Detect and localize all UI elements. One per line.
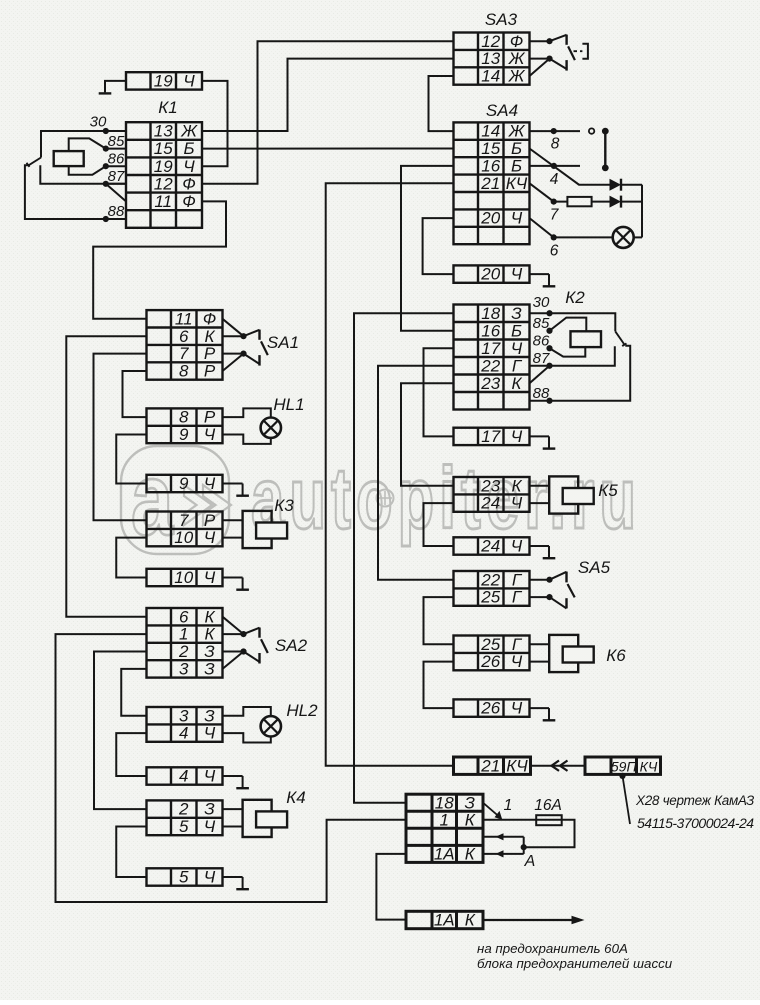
relay K2 junction dots — [546, 310, 552, 404]
switch SA4 fixed contact ring — [589, 128, 594, 133]
svg-text:14: 14 — [481, 67, 500, 86]
svg-text:15: 15 — [481, 139, 500, 158]
svg-text:SA1: SA1 — [267, 333, 299, 352]
relay K2 pin 30 wire and blade — [530, 313, 616, 331]
svg-text:20: 20 — [480, 265, 500, 284]
svg-text:11: 11 — [154, 192, 172, 211]
ground 26Ч — [543, 708, 556, 720]
ground 10Ч — [236, 578, 249, 590]
connector block K1 — [126, 122, 202, 228]
watermark chevron arrows — [184, 485, 212, 525]
svg-text:85: 85 — [108, 133, 125, 150]
svg-text:8: 8 — [179, 362, 189, 381]
connector block HL2 — [147, 706, 223, 742]
svg-text:25: 25 — [480, 635, 500, 654]
svg-text:16: 16 — [481, 321, 500, 340]
svg-text:Ч: Ч — [204, 568, 216, 587]
relay coil K4 — [243, 800, 288, 837]
wire 26Ч to ground — [530, 707, 550, 709]
svg-text:Ж: Ж — [508, 49, 526, 68]
svg-text:К6: К6 — [606, 646, 626, 665]
relay K1 junction dots — [103, 128, 109, 222]
wire 6К SA1 to SA2 — [66, 336, 146, 617]
wire 22Г K2 to SA5 — [378, 366, 454, 580]
svg-text:24: 24 — [480, 494, 500, 513]
wire 18З K2 to fuse panel — [354, 313, 454, 802]
svg-text:17: 17 — [481, 339, 500, 358]
svg-text:87: 87 — [533, 350, 550, 367]
svg-text:5: 5 — [179, 817, 189, 836]
svg-text:К: К — [204, 327, 215, 346]
wire 20Ч to ground — [530, 273, 550, 275]
svg-text:Ч: Ч — [204, 868, 216, 887]
relay K2 pin 88 bus — [530, 346, 631, 401]
svg-text:6: 6 — [179, 327, 189, 346]
svg-text:Х28 чертеж КамАЗ: Х28 чертеж КамАЗ — [635, 793, 755, 808]
svg-text:Р: Р — [204, 362, 216, 381]
connector block K5 — [454, 476, 530, 512]
svg-text:21: 21 — [480, 174, 500, 193]
svg-text:Ч: Ч — [511, 427, 523, 446]
wire K6 26Ч to connector — [424, 662, 454, 709]
relay coil K6 — [549, 635, 594, 672]
detachable contact arrows — [552, 761, 560, 771]
svg-text:SA3: SA3 — [485, 10, 518, 29]
wire SA4 right bus — [641, 185, 643, 238]
ground 24Ч — [543, 546, 556, 558]
svg-text:1: 1 — [440, 810, 449, 829]
svg-text:Б: Б — [183, 139, 194, 158]
svg-text:Ч: Ч — [511, 652, 523, 671]
svg-text:22: 22 — [480, 570, 500, 589]
svg-text:КЧ: КЧ — [506, 174, 528, 193]
svg-text:16А: 16А — [534, 797, 562, 814]
svg-text:6: 6 — [550, 243, 559, 260]
wire 1АК fuse panel to bottom connector — [376, 854, 406, 920]
connector block 17Ч — [454, 427, 530, 446]
wire 15Б K1 to SA4 — [202, 148, 454, 150]
svg-text:12: 12 — [481, 32, 500, 51]
relay K1 pin 88 bus — [25, 165, 126, 219]
wire 3З SA2 to HL2 — [121, 669, 146, 716]
svg-text:З: З — [204, 642, 215, 661]
svg-text:Ч: Ч — [204, 817, 216, 836]
wire 9Ч HL1 to connector — [116, 435, 146, 484]
svg-text:4: 4 — [179, 724, 188, 743]
svg-text:7: 7 — [179, 344, 189, 363]
svg-text:Ж: Ж — [508, 67, 526, 86]
svg-text:HL2: HL2 — [286, 701, 318, 720]
svg-text:Ч: Ч — [204, 724, 216, 743]
wire SA4 diagonal 15Б to diode — [530, 149, 610, 185]
wire 16Б SA4 to K2 — [401, 166, 454, 331]
svg-text:Ж: Ж — [508, 122, 526, 141]
wire SA4 20Ч to connector — [423, 218, 454, 274]
svg-text:З: З — [511, 304, 522, 323]
lamp HL1 — [261, 418, 281, 438]
connector block X fuse panel — [406, 793, 483, 863]
svg-text:Ч: Ч — [183, 72, 195, 91]
svg-text:26: 26 — [480, 652, 500, 671]
lamp HL2 leads — [223, 707, 271, 716]
relay K1 coil — [54, 151, 84, 166]
svg-text:3: 3 — [179, 706, 189, 725]
wire contact row3 — [483, 836, 524, 838]
svg-text:30: 30 — [533, 294, 550, 311]
relay coil K3 — [243, 511, 288, 548]
svg-text:2: 2 — [178, 800, 189, 819]
wire 11Ф K1 to SA1 — [93, 201, 226, 318]
wire 4Ч HL2 to connector — [116, 733, 146, 776]
wire with arrow to chassis fuse box — [483, 919, 574, 921]
wire 5Ч K4 to connector — [116, 827, 146, 878]
relay coil K3 leads — [223, 519, 243, 521]
svg-text:Ч: Ч — [511, 494, 523, 513]
connector block 24Ч — [454, 537, 530, 556]
wire SA4 contact 4 horizontal — [530, 165, 581, 167]
svg-text:SA2: SA2 — [275, 636, 308, 655]
svg-text:Ч: Ч — [511, 537, 523, 556]
switch SA1 — [223, 319, 268, 371]
svg-text:7: 7 — [179, 511, 189, 530]
connector block SA2 — [147, 607, 223, 678]
svg-text:21: 21 — [480, 756, 500, 775]
connector block 59П КЧ — [585, 757, 661, 774]
svg-text:Р: Р — [204, 511, 216, 530]
wire fuse circuit — [483, 819, 562, 821]
wire 9Ч to ground — [223, 483, 243, 485]
wire 1К SA2 to fuse panel — [56, 634, 407, 902]
svg-text:К: К — [511, 476, 522, 495]
svg-text:5: 5 — [179, 868, 189, 887]
svg-text:З: З — [204, 800, 215, 819]
svg-text:К: К — [465, 844, 476, 863]
leader line X28 — [623, 776, 631, 824]
svg-text:блока предохранителей шасси: блока предохранителей шасси — [477, 956, 673, 971]
svg-text:К1: К1 — [158, 98, 177, 117]
watermark o-target mark — [377, 490, 394, 507]
wire SA5 25Г to K6 — [424, 597, 454, 644]
diode VD2 — [610, 196, 622, 208]
lamp HL2 — [261, 716, 281, 736]
leader to contact 1 — [483, 803, 499, 817]
wire 7Р SA1 to K3 — [94, 354, 147, 521]
relay K2 pin 87 contact bar — [530, 346, 615, 366]
svg-text:К: К — [465, 810, 476, 829]
watermark autopiter logo squircle — [121, 446, 229, 554]
connector block 10Ч — [147, 568, 223, 587]
svg-text:КЧ: КЧ — [640, 758, 658, 774]
svg-text:Ф: Ф — [182, 174, 196, 193]
connector block 4Ч — [147, 767, 223, 786]
svg-text:6: 6 — [179, 607, 189, 626]
svg-text:19: 19 — [154, 72, 173, 91]
svg-text:59П: 59П — [611, 758, 638, 774]
svg-text:Ч: Ч — [204, 474, 216, 493]
svg-text:10: 10 — [174, 568, 193, 587]
svg-text:7: 7 — [550, 207, 560, 224]
leader dot X28 — [619, 773, 625, 779]
svg-text:a: a — [131, 442, 175, 557]
svg-text:SA5: SA5 — [578, 558, 611, 577]
svg-text:15: 15 — [154, 139, 173, 158]
svg-text:Ч: Ч — [204, 528, 216, 547]
svg-text:К2: К2 — [565, 288, 585, 307]
connector block 5Ч — [147, 868, 223, 887]
svg-text:З: З — [204, 660, 215, 679]
switch SA5 — [530, 572, 575, 609]
svg-text:23: 23 — [480, 476, 500, 495]
resistor R1 — [567, 197, 591, 206]
relay K2 coil lead 86 — [550, 347, 586, 357]
svg-text:87: 87 — [108, 168, 125, 185]
svg-text:Ф: Ф — [510, 32, 524, 51]
svg-text:Б: Б — [511, 157, 522, 176]
relay K1 coil lead 86 — [69, 166, 106, 175]
svg-text:88: 88 — [108, 203, 125, 220]
svg-text:Ч: Ч — [511, 339, 523, 358]
wire 19Ч top block to K1 row3 — [202, 81, 228, 166]
wire 12Ф K1 to SA3 — [202, 41, 454, 184]
wire 17Ч to ground — [530, 435, 550, 437]
lamp HL1 leads — [223, 408, 271, 417]
svg-text:20: 20 — [480, 209, 500, 228]
diode VD1 — [610, 179, 622, 191]
wire 8Р SA1 to HL1 — [123, 371, 147, 417]
wire SA4 contact 7 with resistor — [530, 183, 568, 201]
svg-text:10: 10 — [174, 528, 193, 547]
svg-text:1А: 1А — [434, 844, 455, 863]
svg-text:9: 9 — [179, 474, 189, 493]
svg-text:13: 13 — [481, 49, 500, 68]
svg-text:88: 88 — [533, 385, 550, 402]
watermark letter a — [131, 442, 175, 557]
svg-text:12: 12 — [154, 174, 173, 193]
switch SA3 actuator bracket — [582, 44, 588, 59]
ground 4Ч — [236, 776, 249, 788]
svg-text:Ч: Ч — [511, 209, 523, 228]
svg-text:К: К — [465, 911, 476, 930]
svg-text:Ч: Ч — [204, 767, 216, 786]
svg-text:Ч: Ч — [511, 265, 523, 284]
svg-text:КЧ: КЧ — [506, 756, 528, 775]
svg-text:З: З — [204, 706, 215, 725]
wire 13Ж K1 to SA3 — [202, 59, 454, 131]
svg-text:К4: К4 — [286, 788, 305, 807]
wire 19Ч to ground — [105, 81, 126, 93]
svg-text:86: 86 — [533, 333, 550, 350]
wire fuse to loop — [524, 820, 575, 847]
switch SA4 bridge contact — [602, 128, 609, 172]
connector block SA4 — [454, 122, 530, 245]
wire 4Ч to ground — [223, 775, 243, 777]
wire 23К K2 to K5 — [401, 383, 454, 485]
wire K5 24Ч to connector — [424, 503, 454, 546]
svg-text:26: 26 — [480, 699, 500, 718]
connector block 21КЧ — [454, 756, 531, 775]
wire 5Ч to ground — [223, 876, 243, 878]
svg-text:9: 9 — [179, 425, 189, 444]
connector block SA3 — [454, 32, 530, 86]
ground 9Ч — [236, 484, 249, 496]
svg-text:85: 85 — [533, 315, 550, 332]
svg-text:13: 13 — [154, 122, 173, 141]
svg-text:SA4: SA4 — [486, 101, 518, 120]
svg-text:Р: Р — [204, 408, 216, 427]
ground 17Ч — [543, 436, 556, 448]
svg-text:на предохранитель 60А: на предохранитель 60А — [477, 941, 628, 956]
wire 21КЧ to 59П — [531, 765, 586, 767]
lamp in SA4 circuit — [613, 227, 634, 248]
connector block K6 — [454, 635, 530, 671]
relay coil K6 leads — [530, 643, 550, 645]
relay K1 coil lead 85 — [69, 138, 106, 151]
svg-text:4: 4 — [550, 171, 559, 188]
connector block K3 — [147, 511, 223, 547]
fuse 16А — [536, 815, 562, 825]
svg-text:24: 24 — [480, 537, 500, 556]
ground 20Ч — [543, 274, 556, 286]
connector block 26Ч — [454, 699, 530, 718]
svg-text:Ч: Ч — [183, 157, 195, 176]
svg-text:Б: Б — [511, 321, 522, 340]
connector block SA1 — [147, 309, 223, 380]
relay K2 coil lead 85 — [550, 318, 587, 332]
relay coil K5 leads — [530, 485, 550, 487]
wire 10Ч to ground — [223, 577, 243, 579]
svg-text:3: 3 — [179, 660, 189, 679]
svg-text:Б: Б — [511, 139, 522, 158]
connector block K2 — [454, 304, 530, 410]
connector block K4 — [147, 800, 223, 836]
svg-text:К: К — [204, 607, 215, 626]
svg-text:К3: К3 — [274, 496, 294, 515]
svg-text:1: 1 — [504, 797, 513, 814]
relay coil K4 leads — [223, 808, 243, 810]
wire SA4 contact 6 to lamp — [530, 218, 613, 237]
svg-text:К5: К5 — [598, 481, 618, 500]
svg-text:8: 8 — [551, 136, 560, 153]
wire loop to contacts — [523, 837, 525, 854]
svg-text:14: 14 — [481, 122, 500, 141]
relay coil K5 — [549, 476, 594, 513]
ground top-left — [99, 92, 112, 94]
connector block 19Ч top — [126, 72, 202, 91]
svg-text:18: 18 — [481, 304, 500, 323]
connector block 9Ч — [147, 474, 223, 493]
svg-text:25: 25 — [480, 588, 500, 607]
svg-text:19: 19 — [154, 157, 173, 176]
connector block 20Ч — [454, 265, 530, 284]
connector block HL1 — [147, 408, 223, 444]
svg-text:86: 86 — [108, 151, 125, 168]
relay K1 pin 87 diagonal to row5 — [106, 184, 126, 202]
watermark text autopiter.ru — [251, 449, 641, 547]
svg-text:1: 1 — [179, 625, 188, 644]
relay K2 coil — [571, 331, 602, 347]
connector block 1А К bottom — [406, 911, 483, 930]
wire K2 17Ч to connector — [424, 348, 454, 436]
svg-text:К: К — [204, 625, 215, 644]
svg-text:А: А — [524, 853, 536, 870]
svg-text:22: 22 — [480, 356, 500, 375]
switch SA3 contacts — [530, 35, 575, 76]
wire 14Ж SA3 to SA4 — [429, 76, 454, 131]
svg-text:Ч: Ч — [511, 699, 523, 718]
svg-text:23: 23 — [480, 374, 500, 393]
wire 2З SA2 to K4 — [94, 652, 147, 810]
wire 10Ч K3 to connector — [116, 538, 146, 578]
relay K1 pin 87 contact bar — [40, 165, 126, 184]
wire 24Ч to ground — [530, 545, 550, 547]
svg-text:17: 17 — [481, 427, 500, 446]
svg-text:1А: 1А — [434, 911, 455, 930]
svg-text:16: 16 — [481, 157, 500, 176]
svg-text:30: 30 — [90, 114, 107, 131]
connector block SA5 — [454, 570, 530, 606]
svg-text:Ф: Ф — [182, 192, 196, 211]
svg-text:Р: Р — [204, 344, 216, 363]
svg-text:К: К — [511, 374, 522, 393]
svg-text:Ж: Ж — [180, 122, 198, 141]
svg-text:2: 2 — [178, 642, 189, 661]
svg-text:11: 11 — [175, 309, 193, 328]
relay K1 pin 30 wire and blade — [41, 131, 106, 158]
wire 21КЧ SA4 to connector — [326, 183, 454, 765]
svg-text:HL1: HL1 — [273, 395, 304, 414]
svg-text:Ч: Ч — [204, 425, 216, 444]
wire contact A row4 — [483, 853, 524, 855]
ground 5Ч — [236, 877, 249, 889]
wire SA4 contact 8 — [530, 130, 581, 132]
svg-text:8: 8 — [179, 408, 189, 427]
switch SA2 — [223, 617, 268, 669]
svg-text:Ф: Ф — [203, 309, 217, 328]
svg-text:4: 4 — [179, 767, 188, 786]
relay K2 pin 87 diagonal to row5 — [530, 366, 550, 384]
svg-text:54115-37000024-24: 54115-37000024-24 — [637, 815, 754, 831]
relay K1 pin stubs — [106, 131, 126, 184]
